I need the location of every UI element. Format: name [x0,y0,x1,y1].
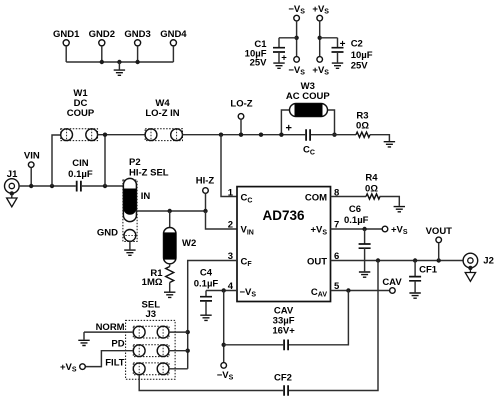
wire pin2 [206,211,238,229]
junction [50,184,54,188]
junction [203,209,207,213]
ground [332,63,343,68]
junction [29,184,33,188]
svg-text:−VS: −VS [217,370,234,382]
capacitor C1 [273,38,297,63]
junction [318,36,322,40]
svg-text:16V+: 16V+ [272,326,295,337]
wire ground bus [66,61,173,63]
junction [222,288,226,292]
junction [186,349,190,353]
junction [259,133,263,137]
svg-text:FILT: FILT [105,358,125,369]
svg-text:W2: W2 [182,238,196,249]
svg-text:CIN: CIN [72,158,89,169]
svg-text:C2: C2 [351,38,363,49]
wire pin7 [331,228,383,230]
terminal HI-Z [203,188,209,211]
junction [346,288,350,292]
junction [117,60,121,64]
svg-text:COUP: COUP [67,108,95,119]
svg-text:1: 1 [228,187,234,198]
capacitor C2 [320,38,344,63]
junction [362,227,366,231]
svg-text:PD: PD [111,339,124,350]
svg-text:CAV: CAV [382,277,402,288]
ground [200,315,211,320]
svg-text:+VS: +VS [60,362,77,374]
svg-text:IN: IN [141,191,151,202]
svg-text:4: 4 [228,281,234,292]
svg-text:GND1: GND1 [53,29,80,40]
connector GND2 [99,40,105,62]
svg-text:6: 6 [334,251,339,262]
junction [219,133,223,137]
svg-text:GND: GND [97,228,118,239]
wire [370,135,389,141]
terminal VOUT [436,237,442,260]
terminal LO-Z [238,114,244,135]
terminal +VS right [382,226,388,232]
svg-text:2: 2 [228,219,233,230]
junction [279,133,283,137]
wire pin1 branch [221,135,237,197]
junction [103,184,107,188]
capacitor C4 [200,291,212,315]
svg-text:10µF: 10µF [351,50,373,61]
terminal -VS top [294,15,300,56]
ground [359,272,370,277]
wire CF2 [139,261,378,391]
wire PD [85,351,187,367]
svg-text:+VS: +VS [391,224,408,236]
svg-text:C4: C4 [200,268,213,279]
ground [164,292,175,297]
svg-text:J2: J2 [483,256,494,267]
wire [82,185,124,187]
junction [294,36,298,40]
svg-text:CF2: CF2 [274,372,292,383]
terminal +VS top [317,15,323,56]
junction [186,330,190,334]
svg-text:C6: C6 [349,204,361,215]
capacitor CAV [284,340,288,351]
svg-text:HI-Z SEL: HI-Z SEL [129,167,169,178]
resistor R4 [366,194,380,199]
wire W1 left leg [52,135,61,186]
junction [413,258,417,262]
connector J2 [463,253,478,281]
svg-text:VOUT: VOUT [426,226,453,237]
svg-text:+VS: +VS [312,65,329,77]
wire FILT right [169,368,188,370]
wire -VS drop [223,291,225,363]
terminal -VS bottom [221,363,227,369]
terminal VIN [28,162,34,186]
svg-text:3: 3 [228,251,233,262]
header J3 [126,320,176,379]
terminal CAV [390,288,396,294]
header P2 [123,178,137,241]
ground [78,332,89,345]
wire W1 right leg [104,135,106,186]
svg-text:7: 7 [334,219,339,230]
junction [103,133,107,137]
svg-text:25V: 25V [351,61,369,72]
svg-text:+: + [340,39,346,50]
jumper W1 [61,129,98,141]
junction [332,133,336,137]
svg-text:HI-Z: HI-Z [196,176,215,187]
svg-text:0Ω: 0Ω [356,120,369,131]
connector GND1 [63,40,69,62]
junction [168,209,172,213]
capacitor CIN [77,181,81,192]
svg-text:GND3: GND3 [124,29,150,40]
terminal +VS lower [317,57,323,63]
wire [380,197,400,206]
capacitor C6 [359,229,371,271]
svg-text:COM: COM [305,193,327,204]
connector J1 [5,179,20,207]
resistor R3 [356,132,370,137]
ground [409,293,420,298]
svg-text:GND4: GND4 [160,29,187,40]
svg-text:P2: P2 [129,157,141,168]
wire pin8 [331,196,367,198]
wire [311,134,356,136]
svg-text:0.1µF: 0.1µF [344,215,369,226]
wire pin5 [331,290,390,292]
junction [135,60,139,64]
svg-text:CF1: CF1 [419,265,438,276]
wire NORM [84,331,188,333]
svg-text:LO-Z IN: LO-Z IN [145,108,179,119]
capacitor CF1 [409,261,421,293]
svg-text:1MΩ: 1MΩ [142,277,163,288]
wire pin4 [206,290,237,292]
svg-text:CC: CC [303,145,315,157]
svg-text:+: + [285,122,291,134]
connector GND4 [170,40,176,62]
svg-text:AD736: AD736 [262,208,305,223]
ground [114,62,125,75]
op-amp U1 AD736 box [237,187,331,302]
ground [394,207,405,212]
wire [98,134,146,136]
svg-text:J1: J1 [7,169,18,180]
junction [100,60,104,64]
wire pin6 OUT [331,260,464,262]
svg-text:AC COUP: AC COUP [286,91,330,102]
svg-text:+VS: +VS [312,4,329,16]
svg-text:OUT: OUT [307,256,327,267]
junction [222,343,226,347]
resistor R1 [166,264,174,292]
wire pin3 [188,261,237,369]
svg-text:J3: J3 [146,309,157,320]
wire P2 out [136,210,205,212]
svg-text:R4: R4 [365,173,378,184]
ground [124,241,135,255]
svg-text:0.1µF: 0.1µF [68,169,93,180]
svg-text:GND2: GND2 [89,29,115,40]
junction [239,133,243,137]
svg-text:8: 8 [334,187,339,198]
wire input [19,185,76,187]
jumper W3 [281,104,334,135]
capacitor CC [306,129,310,141]
jumper W2 [164,211,177,264]
terminal -VS lower [294,57,300,63]
junction [437,258,441,262]
svg-text:5: 5 [334,281,340,292]
svg-text:0.1µF: 0.1µF [194,279,219,290]
svg-text:LO-Z: LO-Z [230,99,252,110]
junction [376,258,380,262]
svg-text:+: + [281,53,287,64]
svg-text:−VS: −VS [288,65,305,77]
svg-text:NORM: NORM [96,322,125,333]
wire [183,134,306,136]
capacitor CF2 [284,385,288,396]
svg-text:25V: 25V [250,58,268,69]
wire CAV [224,291,349,345]
svg-text:0Ω: 0Ω [365,183,378,194]
jumper W4 [145,129,182,141]
svg-text:−VS: −VS [288,4,305,16]
terminal +VS bottomleft [80,364,86,370]
svg-text:VIN: VIN [24,151,40,162]
ground [273,63,284,68]
ground [384,142,395,147]
connector GND3 [135,40,141,62]
